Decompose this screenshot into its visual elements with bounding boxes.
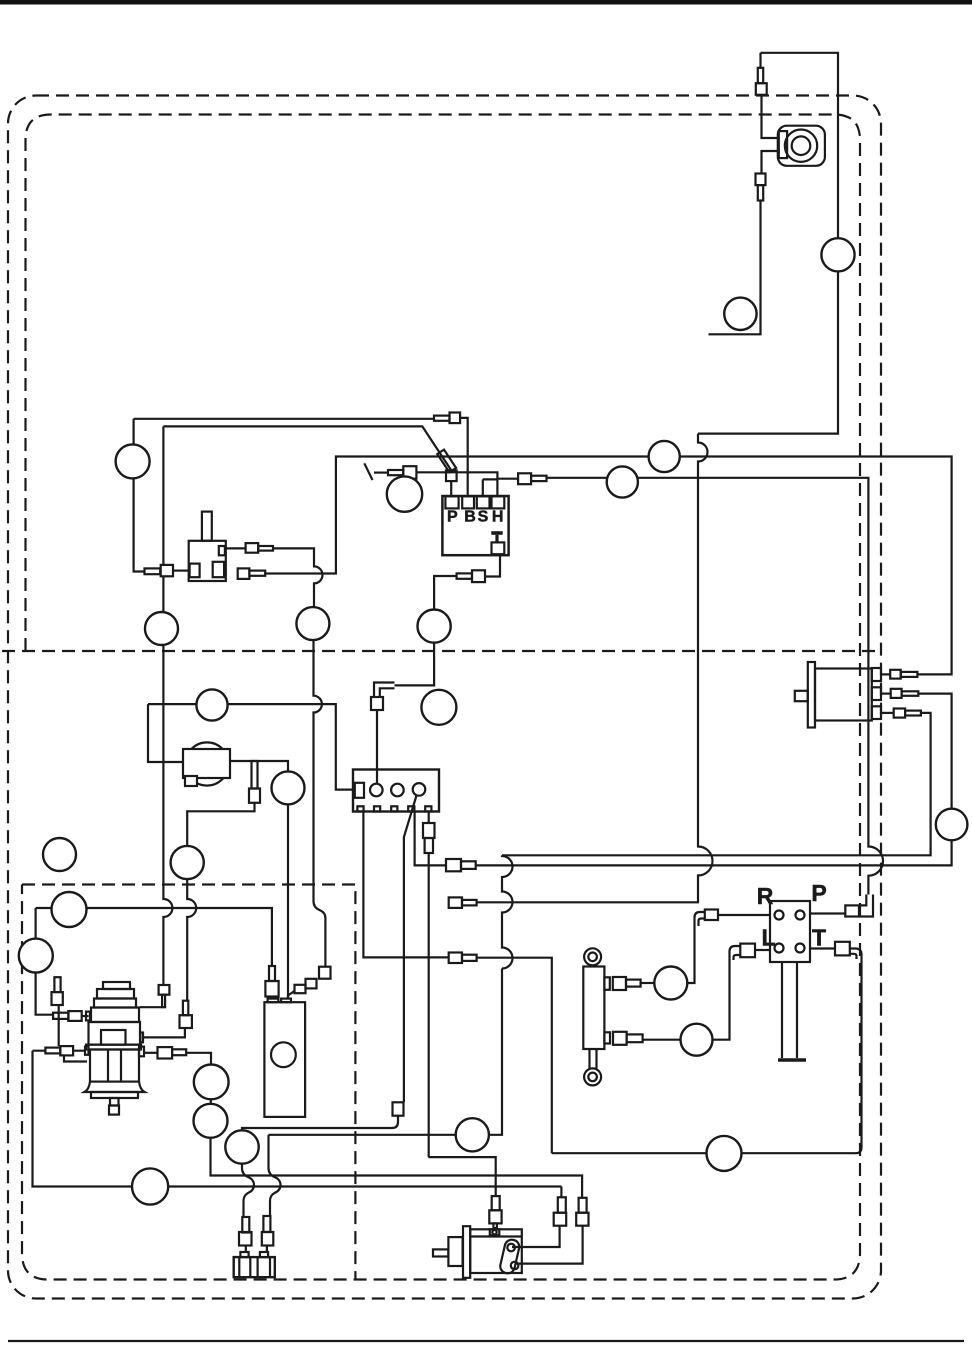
pump upper-right tab (140, 1033, 143, 1043)
manifold block (353, 770, 439, 812)
wire riser to link lower (516, 1226, 583, 1264)
fitting body pump out (158, 1047, 173, 1058)
PBSH valve block (442, 496, 508, 555)
wire solenoid out (230, 761, 288, 999)
callout circle cyl upper (654, 967, 687, 1000)
elbow inner hint L (734, 955, 741, 960)
wire port2 link (881, 692, 891, 694)
fitting body S right (518, 473, 531, 484)
wire pump pressure out (144, 1052, 158, 1054)
callout circle x313 (296, 607, 329, 640)
fitting stem pump out (172, 1049, 186, 1055)
fitting body pump port1 (890, 670, 901, 679)
fitting body cyl lower (613, 1032, 627, 1045)
fitting stem cyl lower (627, 1034, 643, 1042)
wire circle to R elbow (687, 912, 705, 983)
wire B riser (460, 418, 468, 497)
fitting body accumulator left (265, 981, 278, 997)
wire port1 link (881, 673, 890, 675)
wire starter feed y1157 (428, 1157, 495, 1196)
wire cap drop (58, 1005, 60, 1046)
label T (drawn) (491, 531, 502, 542)
fitting body below grommet (756, 174, 766, 186)
wire elbow feed from manifold (404, 796, 417, 1103)
fitting stem x187 (183, 1001, 188, 1016)
fitting stem S left (388, 470, 403, 475)
fitting stem top pair (434, 416, 450, 421)
fitting body pump port2 (891, 689, 902, 698)
wire jog to x187 (187, 803, 254, 1001)
callout circle chain2 (194, 1104, 228, 1138)
fitting body rear P (845, 905, 859, 916)
wire header drop x35.6 (36, 908, 54, 1015)
callout circle left (116, 444, 150, 478)
wire to grommet upper (761, 53, 778, 138)
fitting stem valve R1 (258, 546, 273, 551)
callout circle chain1 (194, 1065, 229, 1100)
wire S/H junction (416, 472, 518, 496)
fitting stem pump left1 (53, 1013, 68, 1019)
wire R to block (718, 914, 770, 916)
wire solenoid feed (148, 704, 183, 762)
wire pump left2 loop (33, 1051, 562, 1187)
svg-text:R: R (757, 883, 774, 909)
callout circle x434 (418, 610, 451, 643)
wire body to tab (64, 1051, 87, 1062)
callout circle x163 (145, 612, 178, 645)
wire T drain (485, 554, 500, 576)
callout circle x288 (272, 771, 305, 804)
fitting cap plug1 (240, 1252, 248, 1257)
wire L to block (755, 949, 770, 951)
fitting stem plug2 (263, 1216, 270, 1232)
callout circle on T line (707, 1136, 742, 1171)
wire S-bend2 to fitting (269, 1135, 281, 1216)
fitting body x163 bottom (159, 985, 170, 995)
fitting body hose row3 capped (449, 897, 462, 908)
fitting body left valve (161, 565, 173, 576)
wire port3 link (881, 712, 894, 714)
lever tick (364, 463, 372, 480)
wire drain to manifold (395, 576, 457, 685)
starter motor (433, 1226, 522, 1278)
fitting stem link lower (579, 1198, 587, 1213)
wire elbow to link upper (512, 1226, 560, 1247)
fitting stem valve R2 (249, 571, 265, 576)
capped vertical fitting stem (54, 977, 60, 992)
elbow inner hint T (850, 954, 857, 959)
fitting body hose B (446, 859, 461, 871)
callout circle floating left (43, 838, 76, 871)
wire top-left pair lower + diagonal (163, 426, 451, 470)
callout circle near block (387, 476, 422, 511)
fitting link plug1 (245, 1246, 247, 1253)
callout circle at hook (724, 298, 756, 330)
wire valve upper right (225, 547, 246, 549)
fitting cap plug2 (260, 1252, 268, 1257)
hose row4 drain to tank return (477, 958, 552, 1153)
fitting stem pump port3 (905, 711, 921, 716)
elbow tube manifold port1 (374, 683, 395, 698)
fitting stem hose row4 (462, 955, 477, 961)
wire center drop with hops (477, 434, 713, 903)
fitting body S left (403, 466, 416, 479)
wire fitting to pump tab (82, 1015, 89, 1017)
wire into valve (173, 569, 189, 571)
fitting body link lower (576, 1213, 588, 1226)
callout circle x242 (225, 1130, 258, 1163)
wire down-left hook (709, 201, 761, 335)
bottom rule (8, 1340, 964, 1342)
solenoid valve (183, 742, 230, 786)
fitting stem cyl upper (626, 980, 641, 987)
fitting stem plug1 (242, 1217, 249, 1233)
fitting body starter top (489, 1210, 501, 1223)
callout circle x951 (936, 809, 968, 841)
wire suction header y908 (36, 908, 272, 966)
wire circle to L elbow (713, 946, 741, 1040)
fitting stem left valve (145, 568, 161, 574)
callout circle cyl lower (681, 1024, 713, 1056)
elbow tube rear P (859, 895, 873, 917)
mid dashed divider (2, 650, 881, 652)
wire riser into manifold (376, 710, 378, 784)
elbow inner hint R (699, 919, 705, 927)
wire elbow to circle (242, 1116, 398, 1131)
fitting body x187 (180, 1015, 192, 1028)
hose line B from manifold tick4 (415, 812, 446, 866)
staircase elbow to accumulator (288, 967, 331, 999)
wire cap stub (374, 472, 388, 474)
steering block RPLT (770, 901, 810, 1060)
callout circle on pilot line (196, 689, 227, 720)
callout circle y477 (607, 466, 638, 497)
wire long return line y456.5 (265, 457, 951, 675)
svg-text:P: P (447, 508, 458, 525)
fitting stem accumulator left (269, 966, 275, 981)
pump right tab (139, 1047, 144, 1057)
elbow square (393, 1102, 404, 1115)
wire top-left pair upper (134, 418, 434, 420)
fitting body link upper (554, 1213, 567, 1226)
wire top-right supply (698, 53, 838, 434)
wire S-port line to rear elbow (547, 478, 884, 895)
fitting stem hanging (252, 761, 258, 789)
fitting body pump left1 (68, 1011, 81, 1021)
fitting body plug1 (239, 1232, 252, 1246)
wire P riser (450, 481, 452, 496)
svg-text:P: P (811, 880, 826, 906)
connector square above P (446, 470, 457, 481)
svg-text:H: H (492, 508, 504, 525)
lift cylinder (583, 948, 610, 1085)
wire cyl lower to circle (643, 1039, 681, 1041)
fitting body x428 (423, 823, 435, 838)
wire left drop x133.6 (134, 419, 145, 572)
inner dashed enclosure (22, 115, 860, 1280)
hydraulic pump motor unit (85, 982, 145, 1115)
wire cyl upper to circle (641, 982, 655, 984)
fitting body pump left2 (60, 1046, 73, 1055)
fitting stem pump left2 (45, 1048, 60, 1054)
fitting stem link upper (558, 1197, 566, 1212)
fitting stem x428 (425, 838, 433, 853)
wire grommet lower to fitting (762, 151, 778, 174)
callout circle y456 (649, 441, 680, 472)
fitting stem hose row3 (462, 900, 477, 906)
fitting body L (740, 944, 755, 958)
wire S-bend1 to fitting (242, 1164, 254, 1217)
wire hose header y1134.8 (269, 969, 503, 1135)
fitting stem hose B (461, 861, 476, 869)
capped vertical fitting body (52, 992, 63, 1005)
fitting body valve R1 (246, 543, 259, 553)
fitting body R (705, 910, 718, 921)
fitting body hose row4 (449, 953, 462, 964)
svg-text:T: T (812, 925, 826, 951)
fitting link plug2 (266, 1246, 268, 1253)
fitting stem pump port2 (902, 691, 919, 696)
hose line B long (476, 694, 952, 866)
fitting body valve R2 (238, 568, 250, 579)
callout circle on supply line (821, 238, 854, 271)
top rule bar (0, 0, 972, 5)
wire x163 into pump top (140, 1006, 162, 1008)
brake valve body (189, 512, 226, 581)
fitting body top-right (756, 83, 767, 95)
fitting tip starter top (493, 1223, 497, 1228)
wire riser to link upper (560, 1187, 562, 1198)
wire pilot line y704 (148, 704, 353, 790)
svg-text:L: L (761, 925, 775, 951)
fitting stem starter top (492, 1196, 500, 1210)
wire vertical fitting feed x428 (428, 812, 430, 1158)
wire into pump upper port (143, 1028, 185, 1037)
connector square manifold port1 (371, 697, 383, 710)
fitting stem below grommet (758, 185, 763, 200)
fitting body T out (835, 942, 850, 956)
fitting body top pair (450, 413, 461, 424)
fitting body plug2 (262, 1232, 274, 1246)
hose row4 from manifold tick1 (363, 812, 448, 958)
bottom-left dashed box (22, 885, 355, 1280)
wire to hop drop x314 (273, 548, 325, 966)
callout circle near manifold (421, 690, 456, 725)
accumulator (264, 999, 305, 1117)
callout circle on header (52, 892, 87, 927)
fitting stem pump port1 (901, 672, 918, 677)
pump left tab1 (86, 1012, 90, 1021)
wire drop x163.4 (163, 426, 172, 985)
fitting body hanging (249, 789, 260, 803)
wire T to tank (552, 949, 862, 1154)
svg-text:B: B (464, 508, 476, 525)
fitting stem S right (531, 476, 546, 481)
callout circle on return (132, 1168, 168, 1204)
callout circle x36 (19, 939, 53, 973)
svg-text:S: S (478, 508, 489, 525)
fitting stem T drain (457, 573, 472, 578)
fitting body pump port3 (894, 709, 905, 718)
callout circle x187 (171, 846, 204, 879)
rear gear pump (795, 662, 881, 728)
pump left tab2 (85, 1047, 89, 1055)
fitting body cyl upper (613, 977, 626, 990)
plug block (234, 1257, 275, 1277)
fitting stem x163 bottom (162, 995, 165, 1008)
hose spine with hops (502, 855, 513, 968)
callout circle on hose header (456, 1118, 489, 1151)
grommet component (778, 126, 825, 166)
inline connector on diagonal (437, 450, 456, 473)
hose line A (502, 713, 931, 855)
fitting body T drain (472, 570, 485, 582)
fitting stem top-right (758, 68, 763, 83)
wire to P port (810, 912, 845, 914)
wire to circle chain (186, 1053, 582, 1198)
outer dashed enclosure (8, 96, 881, 1299)
